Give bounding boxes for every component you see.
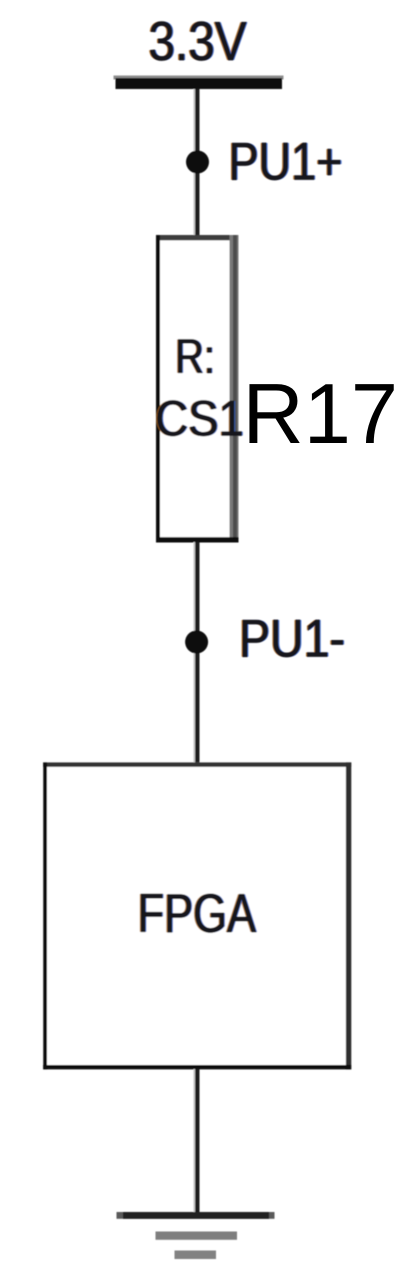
svg-text:FPGA: FPGA (138, 882, 257, 944)
resistor R17 body (156, 235, 239, 543)
reference designator R17 (annotation) (243, 367, 399, 462)
node label PU1- (238, 610, 347, 669)
resistor value label CS1 (154, 391, 245, 447)
wire: rail to resistor top (194, 89, 200, 237)
wire: FPGA bottom to ground (194, 1069, 200, 1215)
ground symbol (117, 1212, 275, 1259)
svg-text:CS1: CS1 (155, 391, 244, 447)
wire: resistor bottom to FPGA top (194, 542, 200, 765)
svg-text:PU1+: PU1+ (229, 133, 343, 192)
net label 3.3V (147, 10, 248, 72)
svg-text:R:: R: (175, 330, 215, 384)
node PU1- junction dot (185, 631, 208, 654)
power rail bar (3.3V supply) (114, 76, 284, 90)
FPGA label (136, 882, 257, 944)
svg-text:R17: R17 (243, 367, 399, 462)
node PU1+ junction dot (186, 151, 209, 174)
svg-text:3.3V: 3.3V (149, 10, 247, 72)
node label PU1+ (227, 133, 344, 192)
svg-text:PU1-: PU1- (239, 610, 345, 669)
resistor field label R: (174, 330, 217, 384)
FPGA block (43, 762, 351, 1069)
